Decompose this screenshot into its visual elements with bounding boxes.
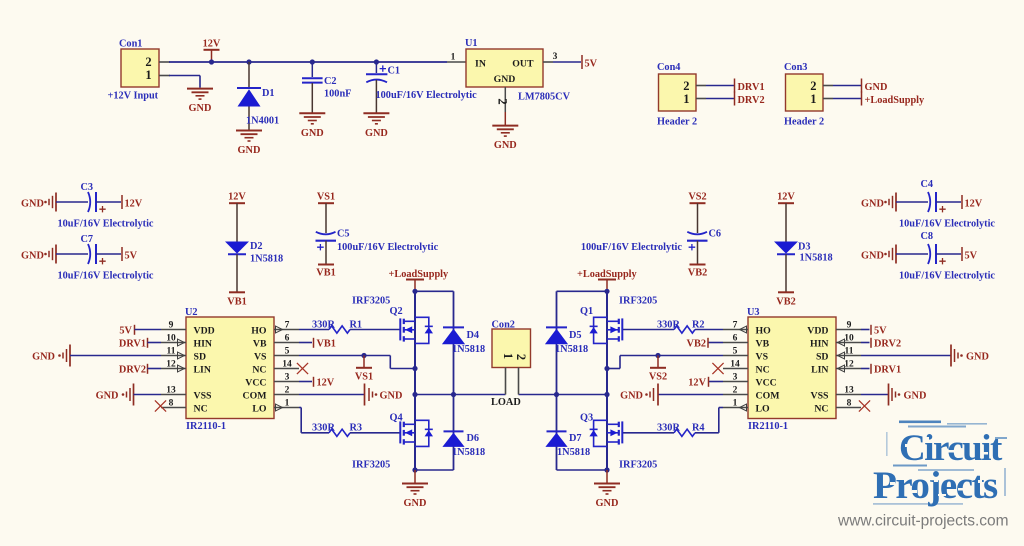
net label GND at Con3: [861, 79, 863, 93]
svg-text:10uF/16V Electrolytic: 10uF/16V Electrolytic: [58, 271, 154, 282]
svg-text:+12V Input: +12V Input: [108, 91, 159, 102]
svg-text:GND: GND: [966, 352, 989, 363]
svg-text:COM: COM: [756, 390, 780, 401]
svg-text:2: 2: [683, 79, 689, 93]
svg-text:GND: GND: [189, 103, 212, 114]
svg-text:C2: C2: [324, 76, 337, 87]
svg-text:VS2: VS2: [688, 192, 706, 203]
power port VB1 below D2: [229, 291, 245, 293]
svg-text:IR2110-1: IR2110-1: [186, 421, 226, 432]
U2 right pin stubs and numbers: [274, 329, 299, 331]
Con3 pin wires: [823, 85, 833, 87]
svg-text:HO: HO: [251, 325, 267, 336]
svg-text:+LoadSupply: +LoadSupply: [577, 269, 638, 280]
svg-text:12V: 12V: [965, 199, 983, 210]
net label VB1 at U2 VB: [299, 342, 312, 344]
net label 5V at U3 VDD: [861, 329, 870, 331]
svg-text:HO: HO: [756, 325, 772, 336]
svg-text:DRV2: DRV2: [738, 95, 765, 106]
svg-text:VB1: VB1: [227, 297, 246, 308]
svg-text:5: 5: [285, 346, 290, 356]
U3 input pin arrows: [838, 339, 845, 346]
svg-text:7: 7: [285, 320, 290, 330]
node 12V-rail junction dots: [209, 59, 214, 64]
U2 left pin stubs and numbers: [161, 329, 186, 331]
svg-text:Con4: Con4: [657, 62, 680, 73]
power port VB2 below C6: [690, 264, 706, 266]
svg-text:VB1: VB1: [317, 339, 336, 350]
svg-text:10: 10: [844, 333, 854, 343]
ground below right bridge: [594, 483, 620, 485]
svg-text:GND: GND: [494, 140, 517, 151]
svg-text:R1: R1: [350, 320, 363, 331]
diode D7 1N5818: [556, 395, 558, 471]
svg-text:IRF3205: IRF3205: [619, 460, 657, 471]
svg-text:IRF3205: IRF3205: [352, 460, 390, 471]
svg-text:VDD: VDD: [194, 325, 215, 336]
ground at U3 COM: [658, 394, 723, 396]
svg-text:GND: GND: [32, 352, 55, 363]
svg-text:1N5818: 1N5818: [452, 344, 485, 355]
U1 pin 2 ground stem: [504, 87, 506, 112]
ground under C1: [363, 112, 389, 114]
connector Con3: [786, 74, 824, 111]
logo Circuit Projects: [873, 421, 1007, 508]
svg-text:VS1: VS1: [355, 372, 373, 383]
svg-text:D4: D4: [467, 330, 480, 341]
svg-text:GND: GND: [596, 498, 619, 509]
regulator U1 LM7805CV: [447, 61, 466, 63]
svg-text:GND: GND: [494, 74, 516, 85]
svg-text:10uF/16V Electrolytic: 10uF/16V Electrolytic: [899, 219, 995, 230]
svg-text:330R: 330R: [312, 423, 335, 434]
svg-text:VSS: VSS: [194, 390, 213, 401]
U2 output pin arrows: [276, 326, 283, 333]
ground under Con1: [187, 88, 213, 90]
svg-text:C1: C1: [388, 66, 401, 77]
svg-text:5V: 5V: [119, 326, 132, 337]
diode D4 1N5818: [453, 291, 455, 394]
svg-text:3: 3: [733, 372, 738, 382]
svg-text:D3: D3: [798, 242, 811, 253]
svg-text:GND: GND: [861, 199, 884, 210]
svg-text:C8: C8: [921, 231, 934, 242]
connector Con2: [492, 329, 531, 368]
wire U3 LO to R4: [719, 407, 723, 409]
svg-text:IRF3205: IRF3205: [352, 296, 390, 307]
diode D6 1N5818: [453, 395, 455, 471]
net label DRV2 at Con4: [734, 92, 736, 106]
net label DRV1 at Con4: [734, 79, 736, 93]
no-connect X at U2 pin 8: [155, 400, 166, 411]
svg-text:12V: 12V: [688, 378, 706, 389]
svg-text:6: 6: [285, 333, 290, 343]
svg-text:LOAD: LOAD: [491, 397, 521, 408]
svg-text:Header 2: Header 2: [657, 117, 697, 128]
svg-text:VS: VS: [756, 351, 769, 362]
resistor R1 330R: [299, 329, 329, 331]
svg-text:3: 3: [553, 52, 558, 62]
svg-text:LIN: LIN: [811, 364, 828, 375]
svg-text:Q3: Q3: [580, 413, 593, 424]
svg-text:NC: NC: [194, 403, 208, 414]
svg-text:VB2: VB2: [688, 268, 707, 279]
svg-text:Con1: Con1: [119, 39, 142, 50]
svg-text:IN: IN: [475, 59, 486, 70]
resistor R3 330R: [329, 429, 350, 436]
svg-text:VB2: VB2: [687, 339, 706, 350]
svg-text:R4: R4: [692, 423, 705, 434]
svg-text:5: 5: [733, 346, 738, 356]
svg-text:SD: SD: [194, 351, 207, 362]
svg-text:100nF: 100nF: [324, 89, 351, 100]
wire right bridge top rail: [604, 289, 609, 294]
svg-text:DRV1: DRV1: [874, 365, 901, 376]
svg-text:2: 2: [514, 354, 528, 360]
ground under C2: [299, 112, 325, 114]
svg-text:U2: U2: [185, 307, 198, 318]
power port VB2 below D3: [778, 291, 794, 293]
svg-text:5V: 5V: [585, 59, 598, 70]
svg-text:GND: GND: [865, 82, 888, 93]
svg-text:2: 2: [810, 79, 816, 93]
svg-text:6: 6: [733, 333, 738, 343]
svg-text:Header 2: Header 2: [784, 117, 824, 128]
svg-text:1N5818: 1N5818: [555, 344, 588, 355]
wire left drain-source rail: [414, 291, 416, 470]
svg-text:5V: 5V: [125, 251, 138, 262]
wire left bridge top rail: [412, 289, 417, 294]
svg-text:LO: LO: [252, 403, 267, 414]
svg-text:R2: R2: [692, 320, 705, 331]
svg-text:VB1: VB1: [316, 268, 335, 279]
svg-text:2: 2: [496, 98, 510, 104]
net label LoadSupply at Con3: [861, 92, 863, 106]
svg-text:VB2: VB2: [776, 297, 795, 308]
svg-text:1N5818: 1N5818: [452, 447, 485, 458]
svg-text:C5: C5: [337, 229, 350, 240]
svg-text:GND: GND: [238, 145, 261, 156]
svg-text:9: 9: [847, 320, 852, 330]
svg-text:Q1: Q1: [580, 306, 593, 317]
svg-text:Con2: Con2: [492, 320, 515, 331]
svg-text:NC: NC: [814, 403, 828, 414]
svg-text:GND: GND: [21, 199, 44, 210]
diode D2 1N5818: [236, 203, 238, 241]
svg-text:Circuit: Circuit: [899, 428, 1003, 469]
ground at U2 COM: [299, 394, 365, 396]
wire Con1 pin1 to ground: [169, 75, 200, 77]
U1 pin 3 output wire: [543, 61, 553, 63]
op-amp driver U2 IR2110-1: [186, 317, 274, 419]
svg-text:3: 3: [285, 372, 290, 382]
svg-text:VB: VB: [253, 338, 267, 349]
svg-text:D1: D1: [262, 88, 275, 99]
svg-text:100uF/16V Electrolytic: 100uF/16V Electrolytic: [581, 242, 683, 253]
net label 12V at U3 VCC: [709, 381, 724, 383]
Con4 pin wires: [696, 85, 706, 87]
svg-text:1: 1: [501, 353, 515, 359]
svg-text:1: 1: [285, 398, 290, 408]
svg-text:VCC: VCC: [756, 377, 777, 388]
ground at U3 VSS: [861, 394, 889, 396]
svg-text:1: 1: [733, 398, 738, 408]
svg-text:14: 14: [730, 359, 740, 369]
svg-text:Q2: Q2: [390, 306, 403, 317]
svg-text:11: 11: [845, 346, 854, 356]
svg-text:7: 7: [733, 320, 738, 330]
svg-text:+LoadSupply: +LoadSupply: [865, 95, 926, 106]
svg-text:GND: GND: [904, 391, 927, 402]
connector Con4: [659, 74, 697, 111]
svg-text:14: 14: [282, 359, 292, 369]
svg-text:D2: D2: [250, 241, 263, 252]
svg-text:10: 10: [166, 333, 176, 343]
svg-text:1N5818: 1N5818: [557, 447, 590, 458]
capacitor C2 100nF: [311, 62, 313, 77]
svg-text:C7: C7: [81, 234, 94, 245]
svg-text:C6: C6: [709, 229, 722, 240]
svg-text:R3: R3: [350, 423, 363, 434]
net label 12V at U2 VCC: [299, 381, 312, 383]
svg-text:12V: 12V: [317, 378, 335, 389]
svg-text:D6: D6: [467, 433, 480, 444]
svg-text:330R: 330R: [312, 320, 335, 331]
wire load line left segment: [415, 394, 506, 396]
svg-text:GND: GND: [620, 391, 643, 402]
svg-text:12: 12: [166, 359, 176, 369]
resistor R4 330R: [674, 429, 695, 436]
no-connect X at U3 pin 14: [712, 363, 723, 374]
svg-text:LIN: LIN: [194, 364, 211, 375]
svg-text:1: 1: [145, 68, 151, 82]
svg-text:1N5818: 1N5818: [250, 254, 283, 265]
wire load line right segment: [519, 394, 608, 396]
svg-text:www.circuit-projects.com: www.circuit-projects.com: [837, 513, 1009, 530]
no-connect X at U2 pin 14: [297, 363, 308, 374]
svg-text:5V: 5V: [874, 326, 887, 337]
svg-text:GND: GND: [301, 128, 324, 139]
svg-text:330R: 330R: [657, 320, 680, 331]
svg-text:330R: 330R: [657, 423, 680, 434]
wire right bridge bottom: [604, 467, 609, 472]
svg-text:VSS: VSS: [811, 390, 830, 401]
svg-text:9: 9: [169, 320, 174, 330]
svg-text:12: 12: [844, 359, 854, 369]
Con2 pin stubs: [505, 368, 507, 395]
no-connect X at U3 pin 8: [859, 400, 870, 411]
diode D1 1N4001: [248, 62, 250, 88]
svg-text:NC: NC: [756, 364, 770, 375]
net label VB2 at U3 VB: [708, 342, 723, 344]
power port VS1 below node: [363, 356, 365, 368]
svg-text:12V: 12V: [228, 192, 246, 203]
svg-text:LM7805CV: LM7805CV: [518, 92, 571, 103]
U3 left pin stubs and numbers: [723, 329, 748, 331]
svg-text:2: 2: [145, 55, 151, 69]
ground under D1: [236, 130, 262, 132]
svg-text:2: 2: [733, 385, 738, 395]
svg-text:GND: GND: [861, 251, 884, 262]
svg-text:IRF3205: IRF3205: [619, 296, 657, 307]
svg-text:5V: 5V: [965, 251, 978, 262]
svg-text:2: 2: [285, 385, 290, 395]
svg-text:VS: VS: [254, 351, 267, 362]
power port VS2 below node: [657, 356, 659, 368]
svg-text:VCC: VCC: [245, 377, 266, 388]
svg-text:1: 1: [451, 53, 456, 63]
Con1 pin 2 stub: [159, 61, 170, 63]
svg-text:10uF/16V Electrolytic: 10uF/16V Electrolytic: [58, 219, 154, 230]
capacitor C5 100uF/16V: [325, 203, 327, 233]
svg-text:SD: SD: [816, 351, 829, 362]
diode D3 1N5818: [785, 203, 787, 241]
power port VB1 below C5: [318, 264, 334, 266]
svg-text:DRV1: DRV1: [119, 339, 146, 350]
svg-text:DRV1: DRV1: [738, 82, 765, 93]
op-amp driver U3 IR2110-1: [748, 317, 836, 419]
resistor R2 330R: [622, 329, 674, 331]
wire U2 LO to R3: [299, 407, 301, 409]
svg-text:GND: GND: [21, 251, 44, 262]
svg-text:COM: COM: [243, 390, 267, 401]
net label 5V at U1 output: [581, 55, 583, 69]
wire U2 VS to switch node: [299, 355, 364, 357]
svg-text:HIN: HIN: [194, 338, 213, 349]
svg-text:D7: D7: [569, 433, 582, 444]
svg-text:12V: 12V: [203, 39, 221, 50]
U3 output pin arrows: [740, 326, 747, 333]
ground below left bridge: [402, 483, 428, 485]
wire main 12V rail: [169, 61, 447, 63]
svg-text:VB: VB: [756, 338, 770, 349]
svg-text:GND: GND: [380, 391, 403, 402]
svg-text:Con3: Con3: [784, 62, 807, 73]
U3 right pin stubs and numbers: [836, 329, 861, 331]
wire left bridge bottom: [412, 467, 417, 472]
svg-text:C4: C4: [921, 179, 934, 190]
svg-text:1N5818: 1N5818: [800, 253, 833, 264]
svg-text:8: 8: [847, 398, 852, 408]
connector Con1: [121, 49, 159, 87]
ground under U1: [492, 125, 518, 127]
svg-text:VS2: VS2: [649, 372, 667, 383]
net label DRV1 at U3 LIN: [861, 368, 870, 370]
svg-text:IR2110-1: IR2110-1: [748, 421, 788, 432]
capacitor C1 100uF/16V: [375, 62, 377, 73]
svg-text:GND: GND: [365, 128, 388, 139]
wire right drain-source rail: [606, 291, 608, 470]
svg-text:GND: GND: [96, 391, 119, 402]
svg-text:LO: LO: [756, 403, 771, 414]
svg-text:12V: 12V: [777, 192, 795, 203]
svg-text:C3: C3: [81, 182, 94, 193]
svg-text:+LoadSupply: +LoadSupply: [389, 269, 450, 280]
svg-text:1: 1: [683, 92, 689, 106]
svg-text:U1: U1: [465, 38, 478, 49]
svg-text:1N4001: 1N4001: [246, 116, 279, 127]
svg-text:HIN: HIN: [810, 338, 829, 349]
svg-text:U3: U3: [747, 307, 760, 318]
svg-text:D5: D5: [569, 330, 582, 341]
wire U3 VS to switch node: [658, 355, 723, 357]
svg-text:12V: 12V: [125, 199, 143, 210]
svg-text:13: 13: [844, 385, 854, 395]
svg-text:1: 1: [810, 92, 816, 106]
svg-text:OUT: OUT: [512, 59, 534, 70]
svg-text:13: 13: [166, 385, 176, 395]
ground at U3 SD: [861, 355, 951, 357]
svg-text:100uF/16V Electrolytic: 100uF/16V Electrolytic: [376, 90, 478, 101]
U2 input pin arrows: [178, 339, 185, 346]
svg-text:100uF/16V Electrolytic: 100uF/16V Electrolytic: [337, 242, 439, 253]
svg-text:DRV2: DRV2: [874, 339, 901, 350]
diode D5 1N5818: [556, 291, 558, 394]
svg-text:NC: NC: [252, 364, 266, 375]
svg-text:8: 8: [169, 398, 174, 408]
svg-text:11: 11: [167, 346, 176, 356]
svg-text:VS1: VS1: [317, 192, 335, 203]
Con1 pin 1 stub: [159, 75, 170, 77]
svg-text:GND: GND: [404, 498, 427, 509]
capacitor C6 100uF/16V: [697, 203, 699, 233]
svg-text:10uF/16V Electrolytic: 10uF/16V Electrolytic: [899, 271, 995, 282]
svg-text:VDD: VDD: [807, 325, 828, 336]
svg-text:DRV2: DRV2: [119, 365, 146, 376]
net label DRV2 at U3 HIN: [861, 342, 870, 344]
